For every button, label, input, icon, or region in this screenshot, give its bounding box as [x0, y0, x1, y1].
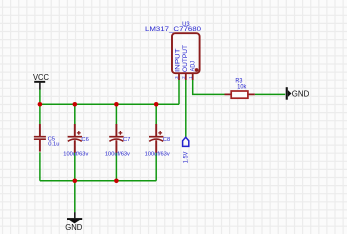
- svg-text:1.5V: 1.5V: [183, 152, 189, 164]
- svg-text:C6: C6: [81, 137, 88, 143]
- svg-text:C8: C8: [163, 137, 170, 143]
- svg-text:LM317_C77680: LM317_C77680: [145, 27, 202, 33]
- svg-text:100uf/63v: 100uf/63v: [63, 151, 88, 157]
- svg-text:GND: GND: [292, 89, 310, 99]
- svg-text:C7: C7: [123, 137, 130, 143]
- svg-text:100uf/63v: 100uf/63v: [145, 151, 170, 157]
- svg-text:OUTPUT: OUTPUT: [183, 45, 189, 72]
- svg-text:GND: GND: [65, 222, 82, 232]
- svg-text:10k: 10k: [237, 84, 247, 90]
- svg-text:VCC: VCC: [33, 72, 49, 82]
- svg-text:INPUT: INPUT: [176, 48, 182, 72]
- svg-text:0.1u: 0.1u: [48, 141, 59, 147]
- svg-text:100uf/63v: 100uf/63v: [105, 151, 130, 157]
